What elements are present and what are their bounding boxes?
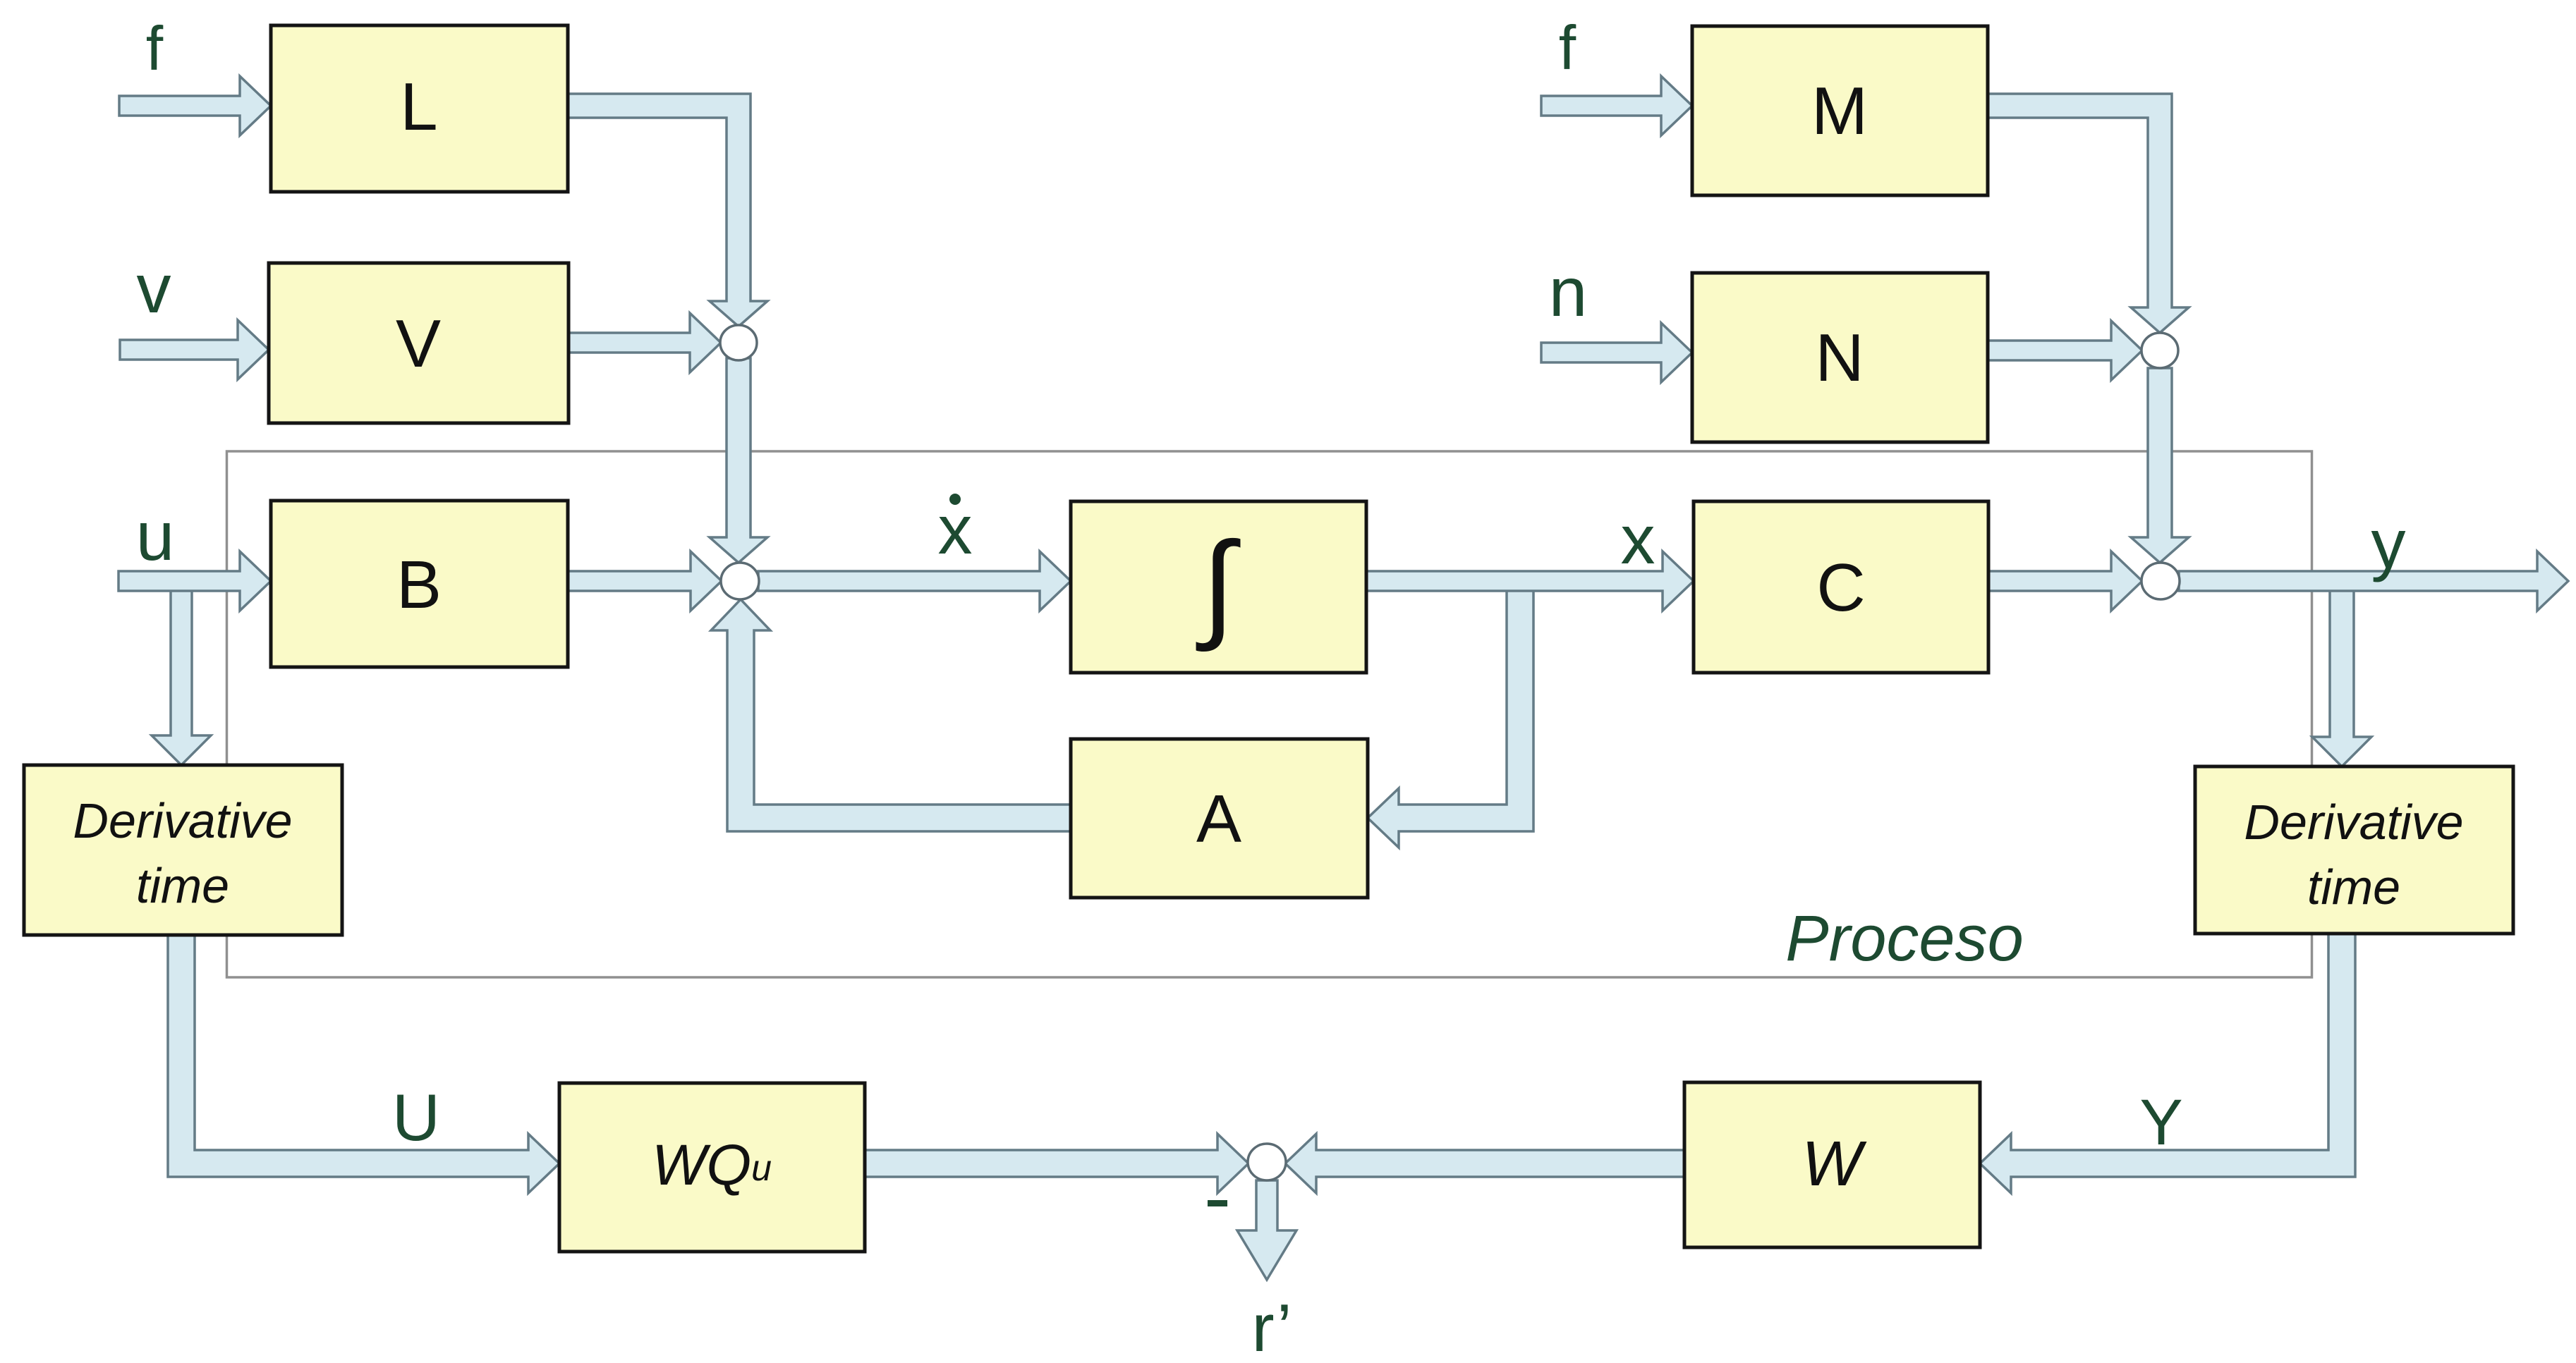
svg-text:Derivative: Derivative (2244, 795, 2463, 850)
svg-text:r’: r’ (1252, 1290, 1292, 1359)
svg-text:y: y (2371, 505, 2406, 582)
svg-text:f: f (1559, 13, 1576, 82)
svg-text:L: L (400, 69, 437, 145)
svg-text:A: A (1196, 781, 1241, 857)
svg-text:n: n (1549, 253, 1588, 331)
svg-text:N: N (1815, 320, 1864, 396)
svg-text:u: u (136, 497, 175, 575)
svg-text:C: C (1816, 550, 1865, 625)
svg-text:W: W (1802, 1129, 1868, 1199)
svg-text:time: time (2307, 860, 2400, 915)
svg-text:∫: ∫ (1196, 518, 1241, 652)
svg-text:B: B (396, 547, 442, 623)
svg-text:M: M (1811, 73, 1868, 149)
svg-text:f: f (146, 13, 164, 83)
svg-text:time: time (136, 858, 229, 913)
svg-text:x: x (1621, 501, 1655, 578)
svg-text:Derivative: Derivative (73, 793, 292, 848)
svg-text:V: V (396, 306, 441, 381)
svg-text:Y: Y (2139, 1087, 2182, 1159)
svg-text:Proceso: Proceso (1785, 903, 2024, 974)
svg-text:v: v (137, 250, 171, 327)
svg-text:U: U (392, 1080, 440, 1154)
